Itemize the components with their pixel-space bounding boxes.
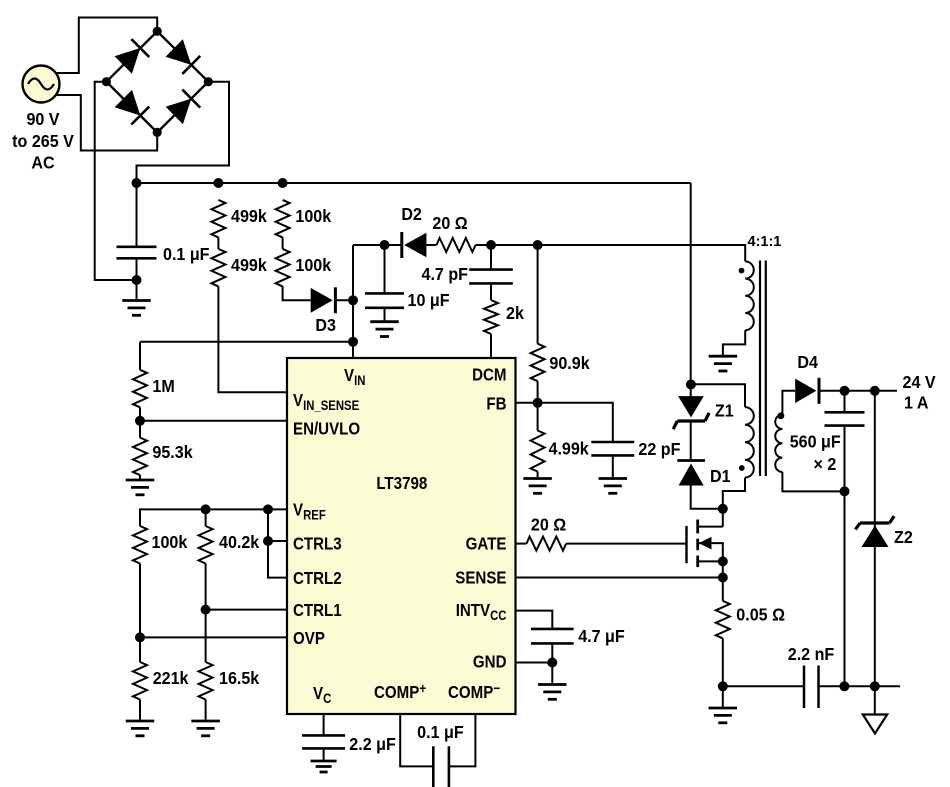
capacitor 0.1uF plates xyxy=(117,246,157,249)
node EN/UVLO junction xyxy=(135,416,145,426)
transistor Q1 channel segments xyxy=(696,520,699,534)
wire 100k ctrl to OVP node xyxy=(139,564,141,638)
node FB junction xyxy=(533,398,543,408)
wire VREF pin line xyxy=(140,509,287,526)
svg-text:95.3k: 95.3k xyxy=(152,442,193,462)
wire bias line to transformer xyxy=(538,245,746,261)
svg-text:40.2k: 40.2k xyxy=(219,532,260,552)
capacitor 0.1uF input lead xyxy=(136,183,138,247)
wire primary bottom to drain node xyxy=(723,478,745,527)
svg-text:GND: GND xyxy=(473,651,507,672)
diode D4 triangle xyxy=(795,379,816,403)
diode D4 cathode bar xyxy=(818,378,821,404)
wire bus drop to Z1 xyxy=(690,183,692,384)
svg-text:4.7 μF: 4.7 μF xyxy=(578,626,624,646)
svg-text:COMP+: COMP+ xyxy=(374,680,427,702)
svg-text:90.9k: 90.9k xyxy=(549,353,590,373)
resistor 100k upper xyxy=(276,200,290,238)
svg-text:GATE: GATE xyxy=(466,533,507,554)
diode bridge D upper-right (anode top node, cathode right) xyxy=(166,39,192,65)
ground under 4.99k xyxy=(523,477,552,480)
zener Z2 bar xyxy=(860,521,890,524)
node VIN at D3 xyxy=(348,295,358,305)
node Z1 top junction xyxy=(686,380,696,390)
capacitor 4.7pF plates xyxy=(469,268,513,271)
wire 2k to DCM pin xyxy=(490,334,492,358)
wire D1 anode to drain node xyxy=(691,486,723,509)
node bus at 0.1uF xyxy=(132,178,142,188)
resistor 499k upper xyxy=(211,200,225,238)
svg-text:1M: 1M xyxy=(152,376,174,396)
transistor Q1 source lead xyxy=(698,560,723,562)
ground under 0.1uF xyxy=(122,299,151,302)
node bus at 100k xyxy=(278,178,288,188)
node SENSE junction xyxy=(718,573,728,583)
wire D2 anode to 20ohm xyxy=(426,244,436,246)
capacitor 0.1uF comp right plate xyxy=(448,746,451,787)
svg-text:D3: D3 xyxy=(315,315,336,335)
node DCM-RC junction xyxy=(486,240,496,250)
capacitor 4.7pF lead xyxy=(490,245,492,270)
wire between 100k resistors xyxy=(282,237,284,249)
node 10uF top junction xyxy=(380,240,390,250)
wire 20ohm to MOSFET gate xyxy=(566,543,686,545)
wire bottom rail left xyxy=(723,685,804,687)
wire 560uF bottom to rail xyxy=(844,426,846,687)
resistor 20ohm bias xyxy=(437,238,476,252)
node bottom rail at 0.05ohm xyxy=(718,681,728,691)
wire 0.05ohm to bottom rail xyxy=(722,638,724,686)
capacitor 560uF top lead xyxy=(844,391,846,413)
capacitor 10uF lead xyxy=(384,245,386,293)
svg-text:499k: 499k xyxy=(231,206,267,226)
wire source down to sense xyxy=(722,561,724,601)
capacitor 2.2nF left plate xyxy=(803,666,806,709)
wire bottom rail right xyxy=(819,685,901,687)
wire SENSE pin line xyxy=(516,577,723,579)
svg-text:16.5k: 16.5k xyxy=(219,668,260,688)
transformer T1 secondary winding xyxy=(775,415,782,472)
wire VIN corner to 10uF node xyxy=(353,244,385,246)
wire DCM node to 90.9k node xyxy=(491,244,538,246)
node bridge right junction xyxy=(204,77,213,86)
wire OVP pin line xyxy=(140,636,287,638)
wire between 499k resistors xyxy=(217,237,219,249)
ground under 0.05ohm xyxy=(709,707,738,710)
svg-text:CTRL1: CTRL1 xyxy=(293,600,342,621)
ground under 16.5k xyxy=(191,720,220,723)
resistor 16.5k xyxy=(199,662,213,700)
wire AC lower lead to bridge bottom node xyxy=(56,95,157,151)
node 90.9k top junction xyxy=(533,240,543,250)
wire 1M top corner xyxy=(139,342,141,370)
node output at 560uF xyxy=(840,386,850,396)
capacitor 2.2nF right plate xyxy=(817,666,820,709)
wire 90.9k to FB node xyxy=(537,381,539,403)
ground under GND pin xyxy=(538,683,567,686)
svg-text:20 Ω: 20 Ω xyxy=(432,213,467,233)
svg-text:2k: 2k xyxy=(506,303,525,323)
wire INTVCC pin line xyxy=(516,611,553,629)
node drain junction xyxy=(718,504,728,514)
ground under 2.2uF xyxy=(311,760,337,763)
ground under 95.3k xyxy=(126,479,155,482)
wire 100k bottom to D3 anode xyxy=(283,286,311,300)
wire secondary bottom xyxy=(782,472,844,491)
wire secondary ground stub xyxy=(874,686,876,714)
diode D2 triangle xyxy=(404,233,426,258)
svg-text:DCM: DCM xyxy=(472,364,506,385)
node GND junction xyxy=(547,658,557,668)
wire CTRL1 pin line xyxy=(206,609,287,611)
wire 16.5k to ground xyxy=(205,700,207,720)
wire bridge branch bottom-right xyxy=(157,82,208,133)
ground under 10uF xyxy=(370,320,399,323)
transformer T1 core xyxy=(759,261,761,477)
diode bridge D lower-right (anode bottom node, cathode right) xyxy=(166,99,192,125)
diode D3 triangle xyxy=(311,288,333,313)
svg-text:Z1: Z1 xyxy=(715,401,734,421)
transformer T1 primary winding xyxy=(745,407,754,477)
svg-text:100k: 100k xyxy=(295,206,331,226)
svg-text:20 Ω: 20 Ω xyxy=(531,515,566,535)
resistor 100k ctrl xyxy=(133,526,147,564)
node primary winding phase dot xyxy=(739,465,745,471)
node bridge left junction xyxy=(102,77,111,86)
capacitor 2.2uF plates xyxy=(302,734,345,737)
transistor Q1 drain lead xyxy=(698,526,723,528)
node bridge top junction xyxy=(153,27,162,36)
ac source V1 90-265VAC circle xyxy=(23,66,60,103)
wire 1M to EN node xyxy=(139,407,141,421)
svg-text:499k: 499k xyxy=(231,255,267,275)
wire 2.2uF to ground xyxy=(323,748,325,760)
svg-text:AC: AC xyxy=(31,153,54,173)
wire 40.2k to CTRL1 node xyxy=(205,564,207,610)
diode bridge D lower-left (anode left node, cathode bottom) xyxy=(115,90,141,116)
wire FB pin line xyxy=(516,403,613,442)
diode bridge D upper-left (anode left node, cathode top) xyxy=(115,48,141,74)
wire bridge negative (left node) down to 0.1uF bottom / ground xyxy=(95,82,137,280)
svg-text:to 265 V: to 265 V xyxy=(12,131,74,151)
wire bridge branch left-bottom xyxy=(106,82,157,133)
wire 4.7pF to 2k xyxy=(490,283,492,300)
wire VC pin lead xyxy=(323,714,325,735)
zener Z2 triangle xyxy=(862,526,889,548)
svg-text:4.7 pF: 4.7 pF xyxy=(422,264,468,284)
wire VREF-CTRL2 jog xyxy=(268,509,287,577)
wire AC upper lead to bridge top node xyxy=(56,18,157,74)
svg-text:COMP−: COMP− xyxy=(448,680,500,702)
svg-text:CTRL3: CTRL3 xyxy=(293,533,342,554)
wire bridge branch left-top xyxy=(106,31,157,81)
node bias winding phase dot xyxy=(739,268,745,274)
ground under 221k xyxy=(126,720,155,723)
svg-text:100k: 100k xyxy=(295,255,331,275)
diode D1 cathode bar xyxy=(677,459,705,462)
svg-text:4.99k: 4.99k xyxy=(549,439,590,459)
wire EN node to 95.3k xyxy=(139,421,141,438)
ground under bias winding xyxy=(709,355,738,358)
wire 10uF node to D2 cathode xyxy=(385,244,402,246)
node secondary winding phase dot xyxy=(778,412,785,419)
diode D3 cathode bar xyxy=(334,287,337,313)
svg-text:100k: 100k xyxy=(152,532,188,552)
capacitor 4.7uF plates xyxy=(531,628,574,631)
transformer T1 bias winding xyxy=(745,261,754,330)
wire GND stub down xyxy=(551,663,553,684)
node output at Z2 xyxy=(870,386,880,396)
wire 90.9k node down xyxy=(537,245,539,344)
node bus at 499k xyxy=(213,178,223,188)
wire Z1 top lead xyxy=(690,384,692,396)
diode D1 triangle xyxy=(679,464,704,486)
resistor 95.3k xyxy=(133,438,147,476)
ground secondary open triangle xyxy=(863,715,887,734)
wire Z1 to D1 xyxy=(690,421,692,461)
node bridge bottom junction xyxy=(153,128,162,137)
resistor 100k lower xyxy=(276,249,290,287)
node 0.1uF bottom junction xyxy=(132,275,142,285)
capacitor 0.1uF bottom lead xyxy=(136,258,138,300)
svg-text:0.05 Ω: 0.05 Ω xyxy=(736,605,785,625)
node CTRL3 junction xyxy=(263,536,273,546)
wire 4.99k to ground xyxy=(537,472,539,478)
svg-text:24 V: 24 V xyxy=(903,373,937,393)
wire CTRL3 stub xyxy=(268,540,287,542)
ground under 22pF xyxy=(599,477,628,480)
svg-text:4:1:1: 4:1:1 xyxy=(748,234,782,250)
node 560uF bottom junction xyxy=(840,486,850,496)
wire D4 to output xyxy=(819,390,897,392)
resistor 499k lower xyxy=(211,249,225,287)
wire Z1 node to primary top xyxy=(691,384,745,407)
wire 499k bottom to VIN_SENSE xyxy=(218,286,287,392)
svg-text:1 A: 1 A xyxy=(904,393,928,413)
svg-text:90 V: 90 V xyxy=(26,109,60,129)
wire COMP- lead xyxy=(449,714,476,766)
capacitor 560uF plates xyxy=(825,411,865,414)
svg-text:Z2: Z2 xyxy=(894,527,913,547)
resistor 4.99k xyxy=(531,431,545,472)
capacitor 22pF plates xyxy=(591,441,634,444)
wire 40.2k top lead xyxy=(205,509,207,526)
zener Z1 bar xyxy=(677,419,705,422)
op-amp U1 LT3798 body xyxy=(287,358,516,714)
svg-text:2.2 μF: 2.2 μF xyxy=(349,734,395,754)
wire OVP node to 221k xyxy=(139,637,141,662)
wire 221k to ground xyxy=(139,700,141,720)
svg-text:FB: FB xyxy=(486,393,506,414)
resistor 1M xyxy=(133,370,147,408)
wire D3 cathode to VIN node xyxy=(335,299,353,301)
capacitor 10uF plates xyxy=(365,292,404,295)
wire bridge branch top-right xyxy=(157,31,208,81)
svg-text:D2: D2 xyxy=(401,204,422,224)
wire Z2 branch xyxy=(874,391,876,687)
capacitor 0.1uF comp left plate xyxy=(432,746,435,787)
zener Z1 triangle xyxy=(678,396,704,417)
svg-text:LT3798: LT3798 xyxy=(376,473,427,494)
resistor 40.2k xyxy=(199,526,213,564)
resistor 90.9k xyxy=(531,344,545,382)
resistor 20ohm gate xyxy=(527,537,567,551)
wire bias winding bottom to ground xyxy=(723,330,745,355)
transistor Q1 gate bar xyxy=(685,526,687,563)
svg-text:221k: 221k xyxy=(153,668,189,688)
wire FB node to 4.99k xyxy=(537,403,539,431)
svg-text:D4: D4 xyxy=(797,352,818,372)
diode D2 cathode bar xyxy=(400,232,403,258)
wire bridge positive (right node) to DC bus xyxy=(137,82,230,183)
svg-text:560 μF: 560 μF xyxy=(790,432,841,452)
svg-text:0.1 μF: 0.1 μF xyxy=(417,722,463,742)
resistor 0.05ohm xyxy=(716,601,730,639)
transistor Q1 body arrow xyxy=(699,537,712,550)
node bottom rail at Z2 xyxy=(870,681,880,691)
node VREF at jog xyxy=(263,504,273,514)
resistor 221k xyxy=(133,662,147,700)
capacitor 10uF bottom lead xyxy=(384,308,386,321)
wire GND pin line xyxy=(516,662,553,664)
node VIN at 1M wire xyxy=(348,337,358,347)
node bottom rail at 560uF xyxy=(839,681,849,691)
node VREF at 40.2k xyxy=(201,504,211,514)
node OVP junction xyxy=(135,632,145,642)
svg-text:CTRL2: CTRL2 xyxy=(293,568,342,589)
svg-text:× 2: × 2 xyxy=(814,454,837,474)
wire secondary top to D4 xyxy=(782,391,795,415)
wire GATE pin to 20ohm xyxy=(516,543,527,545)
resistor 2k xyxy=(484,300,498,334)
svg-text:D1: D1 xyxy=(710,466,731,486)
wire 20ohm to DCM node xyxy=(476,244,492,246)
svg-text:OVP: OVP xyxy=(293,628,325,649)
svg-text:22 pF: 22 pF xyxy=(638,439,680,459)
node CTRL1 junction xyxy=(201,605,211,615)
node source junction xyxy=(718,556,728,566)
wire VIN vertical from D2 line to VIN pin xyxy=(352,245,354,358)
transistor Q1 body arrow line xyxy=(698,543,723,561)
wire 22pF to ground xyxy=(612,455,614,477)
svg-text:0.1 μF: 0.1 μF xyxy=(163,244,209,264)
svg-text:2.2 nF: 2.2 nF xyxy=(788,644,834,664)
svg-text:EN/UVLO: EN/UVLO xyxy=(293,418,360,439)
svg-text:SENSE: SENSE xyxy=(455,567,506,588)
wire COMP+ lead xyxy=(400,714,433,766)
wire EN/UVLO pin line xyxy=(140,420,287,422)
wire DC bus horizontal xyxy=(137,182,691,184)
wire 4.7uF to GND line xyxy=(551,643,553,662)
wire CTRL1 node to 16.5k xyxy=(205,610,207,662)
wire 1M top to VIN node xyxy=(140,341,353,343)
wire 95.3k to ground xyxy=(139,475,141,479)
svg-text:10 μF: 10 μF xyxy=(408,290,450,310)
